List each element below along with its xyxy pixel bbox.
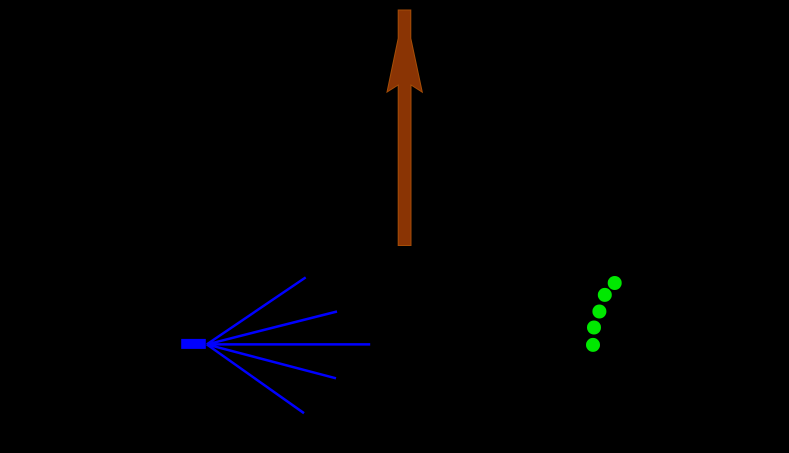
wire fan line 1 — [207, 277, 306, 344]
wire fan line 2 — [207, 312, 337, 345]
arrow (brown, vertical, barbed head) — [387, 10, 422, 246]
wire fan line 4 — [207, 344, 336, 378]
blue rectangle marker — [181, 339, 206, 349]
wire fan line 5 — [207, 344, 304, 413]
green dot 4 — [587, 321, 601, 335]
green dot 1 — [608, 276, 622, 290]
green dot 3 — [592, 305, 606, 319]
green dot 5 — [586, 338, 600, 352]
wire fan line 3 — [207, 343, 370, 346]
green dot 2 — [598, 288, 612, 302]
